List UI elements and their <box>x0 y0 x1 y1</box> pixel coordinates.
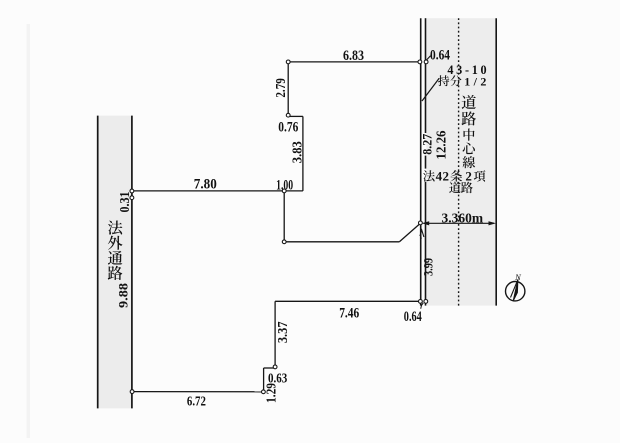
svg-text:7.80: 7.80 <box>194 177 217 193</box>
svg-text:3.83: 3.83 <box>289 141 304 163</box>
svg-text:0.31: 0.31 <box>117 192 132 213</box>
svg-text:1/2: 1/2 <box>464 75 486 89</box>
svg-text:2.79: 2.79 <box>273 78 288 98</box>
svg-text:9.88: 9.88 <box>116 283 130 308</box>
svg-text:1.29: 1.29 <box>265 383 280 403</box>
svg-text:3.37: 3.37 <box>276 321 291 343</box>
svg-text:3.99: 3.99 <box>421 258 435 276</box>
svg-text:6.83: 6.83 <box>343 48 364 64</box>
svg-text:7.46: 7.46 <box>339 306 359 322</box>
svg-text:3.360m: 3.360m <box>442 210 484 225</box>
svg-text:1.00: 1.00 <box>276 177 293 193</box>
svg-text:0.64: 0.64 <box>430 48 450 64</box>
svg-text:2: 2 <box>443 168 450 183</box>
svg-text:12.26: 12.26 <box>434 130 449 159</box>
svg-text:2: 2 <box>465 168 472 183</box>
svg-text:0.76: 0.76 <box>278 119 298 135</box>
svg-text:0.64: 0.64 <box>404 309 422 325</box>
svg-text:6.72: 6.72 <box>187 394 206 409</box>
